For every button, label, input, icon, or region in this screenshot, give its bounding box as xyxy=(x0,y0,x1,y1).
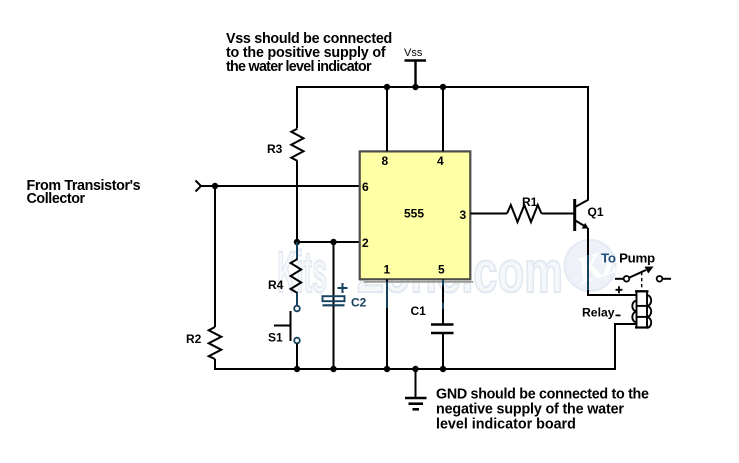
svg-text:Q1: Q1 xyxy=(588,205,604,219)
svg-text:3: 3 xyxy=(460,208,467,222)
wire R4 top stub xyxy=(296,242,298,259)
node junction pin8/rail xyxy=(384,84,390,90)
svg-text:R2: R2 xyxy=(186,332,202,346)
pump switch right contact xyxy=(657,276,663,282)
switch S1 actuator xyxy=(274,311,291,341)
wire top rail xyxy=(297,86,588,88)
svg-text:Collector: Collector xyxy=(27,191,86,207)
svg-text:Relay: Relay xyxy=(582,306,615,320)
watermark Kz logo circle xyxy=(565,240,622,292)
relay coil K1 xyxy=(632,291,651,328)
node junction S1/rail xyxy=(294,366,300,372)
svg-text:555: 555 xyxy=(404,207,424,221)
watermark KitsZone.com text xyxy=(277,240,563,305)
svg-text:To Pump: To Pump xyxy=(601,251,655,266)
resistor R4 xyxy=(291,259,302,293)
wire R1 to Q1 base xyxy=(542,213,574,215)
node junction gnd/rail xyxy=(412,366,418,372)
node junction C1/rail xyxy=(440,366,446,372)
wire pin 1 xyxy=(386,279,388,370)
svg-text:S1: S1 xyxy=(268,331,283,345)
svg-text:4: 4 xyxy=(437,154,444,168)
input arrow from transistor's collector xyxy=(196,181,202,192)
relay plus sign xyxy=(616,286,623,293)
wire C1 bottom segment xyxy=(442,333,444,370)
svg-text:2: 2 xyxy=(362,236,369,250)
wire Q1 emitter down xyxy=(587,228,589,296)
capacitor C1 xyxy=(431,325,454,334)
wire bottom rail xyxy=(214,324,637,369)
svg-text:Kits: Kits xyxy=(277,240,327,305)
wire Q1 collector to rail xyxy=(587,86,589,200)
wire pin 5 navy stubs xyxy=(442,280,444,286)
wire pin6 net xyxy=(201,185,360,187)
wire S1 to rail xyxy=(296,344,298,371)
node junction C2/pin2 xyxy=(330,239,336,245)
capacitor C2 xyxy=(323,242,345,305)
555 box drop shadow xyxy=(364,281,474,283)
node junction pin6/R2 xyxy=(212,183,218,189)
wire pin 1 navy stub xyxy=(386,282,388,309)
relay minus sign xyxy=(616,314,621,316)
svg-text:6: 6 xyxy=(362,180,369,194)
svg-text:Vss: Vss xyxy=(404,47,423,59)
svg-text:GND should be connected to the: GND should be connected to the xyxy=(436,387,649,403)
op-amp U1: 555 timer body xyxy=(360,151,471,279)
capacitor C2 plus sign xyxy=(338,283,348,293)
switch S1 contact bottom xyxy=(294,338,300,344)
resistor R3 xyxy=(291,129,303,161)
svg-text:5: 5 xyxy=(438,263,445,277)
wire emitter to relay xyxy=(587,294,637,296)
wire pin 5 top segment xyxy=(442,279,444,324)
wire pin 8 xyxy=(386,87,388,151)
pump switch left stub xyxy=(615,278,624,280)
node junction pin4/rail xyxy=(440,84,446,90)
wire pin2 net xyxy=(297,241,360,243)
svg-text:C1: C1 xyxy=(411,304,427,318)
svg-text:R4: R4 xyxy=(268,278,284,292)
svg-text:8: 8 xyxy=(382,154,389,168)
svg-text:R1: R1 xyxy=(522,195,538,209)
pump switch right stub xyxy=(663,278,672,280)
wire emitter navy overlay xyxy=(587,255,589,290)
transistor Q1 xyxy=(575,199,589,231)
wire R3 top segment xyxy=(296,86,298,128)
wire R3 bottom segment xyxy=(296,161,298,242)
switch S1 contact top xyxy=(294,306,300,312)
pump switch blade with arrow xyxy=(630,267,654,278)
node junction C2/rail xyxy=(330,366,336,372)
svg-text:negative supply of the water: negative supply of the water xyxy=(436,402,624,418)
Vss power symbol xyxy=(405,61,427,88)
resistor R1 xyxy=(507,205,542,222)
wire R4 bottom stub xyxy=(296,293,298,306)
wire R2 top segment xyxy=(214,186,216,327)
svg-text:level indicator board: level indicator board xyxy=(436,417,576,433)
svg-text:R3: R3 xyxy=(267,142,283,156)
resistor R2 xyxy=(209,327,222,359)
wire R2 bottom segment xyxy=(214,359,216,370)
node junction R3/R4/pin2 xyxy=(294,239,300,245)
ground xyxy=(405,369,427,409)
svg-text:the water level indicator: the water level indicator xyxy=(226,59,372,75)
wire pin 4 xyxy=(442,87,444,151)
node junction Vss/rail xyxy=(412,84,418,90)
pump switch linkage dashed xyxy=(641,272,643,291)
pump switch left contact xyxy=(624,276,630,282)
wire C2 bottom segment xyxy=(333,306,335,370)
svg-text:1: 1 xyxy=(384,263,391,277)
node junction pin1/rail xyxy=(384,366,390,372)
svg-text:C2: C2 xyxy=(351,296,367,310)
wire pin 3 xyxy=(470,213,507,215)
